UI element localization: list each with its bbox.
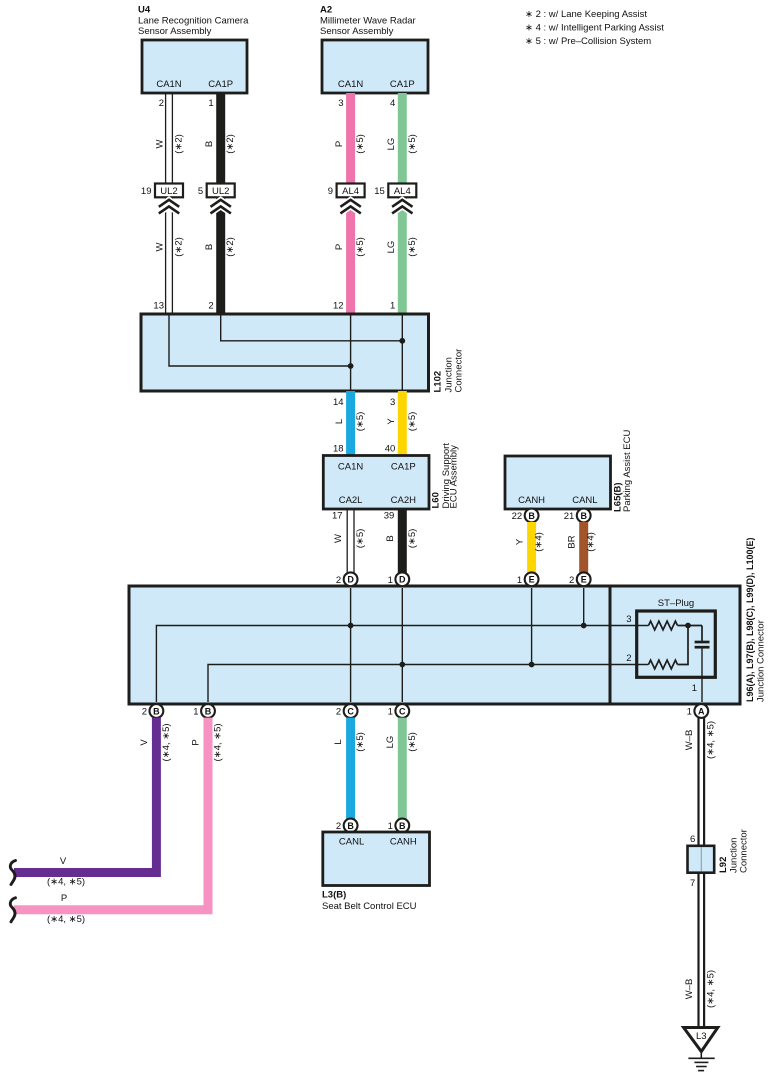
- wire P from A2 pin 3 to AL4: [338, 93, 350, 184]
- connector AL4 pin 9: [328, 184, 365, 198]
- label L96(A) L97(B) L98(C) L99(D) L100(E) Junction Connector: [745, 537, 767, 702]
- wire W from UL2 to L102 pin 13: [153, 197, 172, 314]
- svg-text:(∗5): (∗5): [355, 732, 366, 752]
- wire inside L102 pin 12 down to pin 14: [350, 315, 352, 390]
- component U4 Lane Recognition Camera Sensor Assembly box: [142, 40, 247, 93]
- wire V from 2B down and left: [14, 718, 156, 873]
- label pin 3: [626, 614, 631, 625]
- terminal 2 E: [569, 572, 591, 586]
- label BR (*4): [567, 532, 597, 552]
- svg-text:Connector: Connector: [454, 349, 465, 393]
- svg-text:4: 4: [390, 98, 395, 109]
- svg-text:1: 1: [692, 683, 697, 694]
- wire inside L102 pin 1 down to pin 3: [401, 315, 403, 390]
- wire L from L102 pin 14 to L60 pin 18: [333, 391, 351, 456]
- component L102 Junction Connector box: [141, 314, 429, 391]
- svg-text:Sensor Assembly: Sensor Assembly: [320, 26, 394, 37]
- svg-text:B: B: [385, 535, 396, 541]
- svg-text:L: L: [333, 739, 344, 744]
- svg-text:V: V: [139, 739, 150, 746]
- label W (*2) upper: [155, 134, 185, 154]
- label L60 Driving Support ECU Assembly: [431, 443, 460, 509]
- svg-text:39: 39: [384, 511, 395, 522]
- svg-text:(∗4, ∗5): (∗4, ∗5): [705, 970, 716, 1008]
- svg-text:L3(B): L3(B): [322, 890, 346, 901]
- wire capacitor to pin 1A: [701, 649, 703, 703]
- label L (*5) bottom: [333, 732, 366, 752]
- svg-text:L92: L92: [718, 857, 729, 873]
- junction node W-P: [348, 363, 354, 369]
- label B (*2) upper: [204, 134, 236, 154]
- svg-text:Connector: Connector: [739, 829, 750, 873]
- terminal 1 E: [517, 572, 539, 586]
- component L3(B) Seat Belt Control ECU box: [323, 832, 430, 886]
- svg-text:CANH: CANH: [390, 837, 417, 848]
- svg-text:1: 1: [208, 98, 213, 109]
- svg-text:CA1P: CA1P: [391, 462, 416, 473]
- wire B from UL2 to L102 pin 2: [208, 197, 220, 314]
- svg-text:P: P: [191, 739, 202, 745]
- wire to capacitor: [701, 626, 703, 641]
- svg-text:(∗4, ∗5): (∗4, ∗5): [705, 721, 716, 759]
- svg-text:2: 2: [208, 301, 213, 312]
- terminal 1 B of L3(B): [388, 819, 410, 833]
- svg-text:13: 13: [153, 301, 164, 312]
- junction node 2D-CANH: [348, 623, 354, 629]
- svg-text:B: B: [528, 511, 535, 521]
- resistor R-CANL in ST-Plug: [649, 626, 689, 669]
- svg-text:A: A: [698, 706, 705, 716]
- svg-text:B: B: [204, 141, 215, 147]
- label LG (*5) bottom: [385, 732, 418, 752]
- wire node 1D to 1C: [401, 588, 403, 702]
- svg-text:(∗4, ∗5): (∗4, ∗5): [47, 877, 85, 888]
- svg-text:2: 2: [336, 821, 341, 832]
- svg-text:Millimeter Wave Radar: Millimeter Wave Radar: [320, 16, 416, 27]
- svg-text:18: 18: [333, 444, 344, 455]
- label P (*4,*5) vertical: [191, 723, 224, 761]
- wire B from U4 pin 1 to UL2: [208, 93, 220, 184]
- junction node resistors: [685, 623, 691, 629]
- label P (*5) lower: [334, 237, 366, 257]
- connector UL2 pin 5: [198, 184, 235, 198]
- wire LG from 1C to L3(B): [398, 718, 407, 819]
- svg-text:7: 7: [690, 878, 695, 889]
- svg-text:12: 12: [333, 301, 344, 312]
- svg-text:L3: L3: [696, 1031, 707, 1042]
- junction node B-LG: [399, 338, 405, 344]
- wire Y from L65 CANH to node 1E: [527, 522, 536, 573]
- svg-text:17: 17: [332, 511, 343, 522]
- svg-text:(∗5): (∗5): [407, 237, 418, 257]
- svg-text:15: 15: [374, 186, 385, 197]
- svg-text:(∗5): (∗5): [355, 134, 366, 154]
- svg-text:1: 1: [388, 707, 393, 718]
- label L3(B) Seat Belt Control ECU: [322, 890, 417, 913]
- label A2 component name: [320, 5, 416, 38]
- wire LG from AL4 to L102 pin 1: [390, 197, 402, 314]
- svg-text:5: 5: [198, 186, 203, 197]
- wire W-B from L92 pin 7 to ground: [690, 873, 704, 1028]
- junction node 1E-CANL: [529, 662, 535, 668]
- svg-text:P: P: [334, 141, 345, 147]
- svg-text:1: 1: [687, 707, 692, 718]
- label L92 Junction Connector: [718, 829, 750, 873]
- svg-text:LG: LG: [386, 138, 397, 151]
- svg-text:(∗2): (∗2): [174, 237, 185, 257]
- wire LG from A2 pin 4 to AL4: [390, 93, 402, 184]
- svg-text:L96(A), L97(B), L98(C), L99(D): L96(A), L97(B), L98(C), L99(D), L100(E): [745, 537, 755, 702]
- svg-text:(∗5): (∗5): [407, 412, 418, 432]
- wire L from 2C to L3(B): [346, 718, 355, 819]
- break symbol P wire: [10, 898, 15, 922]
- svg-text:3: 3: [390, 397, 395, 408]
- svg-text:CA2H: CA2H: [391, 495, 416, 506]
- svg-text:1: 1: [388, 575, 393, 586]
- svg-text:(∗5): (∗5): [355, 412, 366, 432]
- svg-text:A2: A2: [320, 5, 332, 16]
- terminal 1 A: [687, 704, 709, 718]
- svg-text:AL4: AL4: [394, 186, 411, 197]
- svg-text:(∗4, ∗5): (∗4, ∗5): [47, 914, 85, 925]
- terminal 1 B: [193, 704, 215, 718]
- label P (*5) upper: [334, 134, 366, 154]
- svg-text:W–B: W–B: [684, 730, 695, 751]
- label L (*5): [334, 412, 366, 432]
- svg-text:AL4: AL4: [342, 186, 359, 197]
- svg-text:V: V: [60, 856, 67, 867]
- svg-text:CA2L: CA2L: [339, 495, 363, 506]
- svg-text:(∗4, ∗5): (∗4, ∗5): [161, 723, 172, 761]
- svg-text:B: B: [205, 706, 212, 716]
- component L96-L100 Junction Connector box: [129, 586, 740, 704]
- chevron on wire P: [340, 200, 360, 214]
- svg-text:P: P: [334, 244, 345, 250]
- svg-text:CA1N: CA1N: [338, 79, 363, 90]
- label W-B (*4,*5) upper: [684, 721, 717, 759]
- svg-text:(∗5): (∗5): [407, 134, 418, 154]
- svg-text:W: W: [155, 139, 166, 148]
- svg-text:W: W: [155, 242, 166, 251]
- svg-text:B: B: [399, 821, 406, 831]
- chevron on wire W: [159, 200, 179, 214]
- terminal 21 B of L65: [564, 509, 591, 523]
- wire Y from L102 pin 3 to L60 pin 40: [385, 391, 403, 456]
- label B (*2) lower: [204, 237, 236, 257]
- label pin 1: [692, 683, 697, 694]
- terminal 1 D: [388, 572, 410, 586]
- svg-text:CA1P: CA1P: [390, 79, 415, 90]
- svg-text:∗ 4 : w/ Intelligent Parking A: ∗ 4 : w/ Intelligent Parking Assist: [525, 23, 664, 34]
- connector UL2 pin 19: [141, 184, 183, 198]
- wire W-B from 1A to L92 pin 6: [690, 718, 704, 846]
- svg-text:2: 2: [626, 653, 631, 664]
- label L102 Junction Connector: [433, 349, 465, 393]
- svg-text:W–B: W–B: [684, 979, 695, 1000]
- label W (*5): [333, 529, 366, 549]
- svg-text:L102: L102: [433, 371, 444, 393]
- svg-text:UL2: UL2: [160, 186, 177, 197]
- svg-text:D: D: [347, 575, 354, 585]
- svg-text:(∗4): (∗4): [534, 532, 545, 552]
- terminal 1 C: [388, 704, 410, 718]
- svg-text:∗ 2 : w/ Lane Keeping Assist: ∗ 2 : w/ Lane Keeping Assist: [525, 9, 647, 20]
- svg-text:LG: LG: [385, 736, 396, 749]
- label ST-Plug: [658, 598, 694, 609]
- svg-text:3: 3: [626, 614, 631, 625]
- svg-text:1: 1: [388, 821, 393, 832]
- svg-text:(∗5): (∗5): [407, 529, 418, 549]
- svg-text:L60: L60: [431, 492, 442, 508]
- svg-text:14: 14: [333, 397, 344, 408]
- component A2 Millimeter Wave Radar Sensor Assembly box: [322, 40, 428, 93]
- label W (*2) lower: [155, 237, 185, 257]
- component L60 Driving Support ECU Assembly box: [323, 456, 429, 510]
- capacitor in ST-Plug: [695, 642, 710, 647]
- legend note *2 *4 *5: [525, 9, 664, 47]
- terminal 2 C: [336, 704, 358, 718]
- svg-text:CANH: CANH: [518, 495, 545, 506]
- svg-text:2: 2: [336, 707, 341, 718]
- svg-text:BR: BR: [567, 535, 578, 548]
- svg-text:C: C: [347, 706, 354, 716]
- wire W from U4 pin 2 to UL2: [159, 93, 173, 184]
- label W-B (*4,*5) lower: [684, 970, 717, 1008]
- svg-text:UL2: UL2: [212, 186, 229, 197]
- svg-text:Seat Belt Control ECU: Seat Belt Control ECU: [322, 901, 417, 912]
- component L65(B) Parking Assist ECU box: [505, 456, 611, 509]
- wire node 1E to CANL bus: [531, 588, 533, 665]
- label B (*5): [385, 529, 418, 549]
- chevron on wire LG: [392, 200, 412, 214]
- svg-text:P: P: [61, 893, 67, 904]
- svg-text:Y: Y: [386, 418, 397, 425]
- bus CANL inside junction connector: [208, 665, 649, 703]
- svg-text:CA1P: CA1P: [208, 79, 233, 90]
- svg-text:∗ 5 : w/ Pre–Collision System: ∗ 5 : w/ Pre–Collision System: [525, 36, 651, 47]
- wire node 2E to CANH bus: [583, 588, 585, 626]
- label LG (*5) lower: [386, 237, 418, 257]
- svg-text:(∗2): (∗2): [225, 237, 236, 257]
- ground symbol: [688, 1052, 714, 1071]
- label Y (*4): [515, 532, 545, 552]
- svg-text:2: 2: [336, 575, 341, 586]
- bus CANH inside junction connector: [156, 626, 648, 703]
- svg-text:B: B: [204, 244, 215, 250]
- label V (*4,*5) vertical: [139, 723, 172, 761]
- divider inside junction connector: [609, 586, 612, 704]
- connector AL4 pin 15: [374, 184, 416, 198]
- svg-text:Junction Connector: Junction Connector: [756, 620, 767, 702]
- wire B from L60 pin 39 to node 1D: [384, 509, 403, 573]
- terminal 2 D: [336, 572, 358, 586]
- terminal 2 B: [142, 704, 164, 718]
- svg-text:LG: LG: [386, 241, 397, 254]
- svg-text:B: B: [347, 821, 354, 831]
- svg-text:21: 21: [564, 511, 575, 522]
- wire BR from L65 CANL to node 2E: [579, 522, 588, 573]
- svg-text:(∗4): (∗4): [586, 532, 597, 552]
- label Y (*5): [386, 412, 418, 432]
- svg-text:CANL: CANL: [339, 837, 364, 848]
- svg-text:ST–Plug: ST–Plug: [658, 598, 694, 609]
- chevron on wire B: [211, 200, 231, 214]
- resistor R-CANH in ST-Plug: [649, 621, 703, 630]
- svg-text:(∗4, ∗5): (∗4, ∗5): [213, 723, 224, 761]
- svg-text:(∗2): (∗2): [174, 134, 185, 154]
- svg-text:3: 3: [338, 98, 343, 109]
- svg-text:22: 22: [512, 511, 523, 522]
- junction node 2E-CANH: [581, 623, 587, 629]
- label LG (*5) upper: [386, 134, 418, 154]
- svg-text:(∗2): (∗2): [225, 134, 236, 154]
- svg-text:(∗5): (∗5): [355, 529, 366, 549]
- svg-text:W: W: [333, 534, 344, 543]
- svg-text:C: C: [399, 706, 406, 716]
- terminal 2 B of L3(B): [336, 819, 358, 833]
- break symbol V wire: [10, 861, 15, 885]
- label L65(B) Parking Assist ECU: [613, 430, 634, 512]
- svg-text:Parking Assist ECU: Parking Assist ECU: [622, 430, 633, 512]
- svg-text:Lane Recognition Camera: Lane Recognition Camera: [138, 16, 249, 27]
- svg-text:9: 9: [328, 186, 333, 197]
- svg-text:(∗5): (∗5): [355, 237, 366, 257]
- terminal 22 B of L65: [512, 509, 539, 523]
- svg-text:ECU Assembly: ECU Assembly: [449, 445, 460, 509]
- svg-text:Sensor Assembly: Sensor Assembly: [138, 26, 212, 37]
- junction node 1D-CANL: [399, 662, 405, 668]
- component ST-Plug box: [637, 611, 716, 677]
- svg-text:2: 2: [569, 575, 574, 586]
- svg-text:B: B: [580, 511, 587, 521]
- svg-text:(∗5): (∗5): [407, 732, 418, 752]
- wire inside L102 from pin 13 to pin 12 column: [169, 315, 351, 366]
- label pin 2: [626, 653, 631, 664]
- label V horizontal: [47, 856, 85, 888]
- label U4 component name: [138, 5, 249, 38]
- svg-text:6: 6: [690, 834, 695, 845]
- component L92 Junction Connector box: [688, 846, 715, 873]
- svg-text:B: B: [153, 706, 160, 716]
- svg-text:1: 1: [517, 575, 522, 586]
- svg-text:CANL: CANL: [572, 495, 597, 506]
- svg-text:CA1N: CA1N: [156, 79, 181, 90]
- wire W from L60 pin 17 to node 2D: [332, 509, 354, 573]
- svg-text:E: E: [529, 575, 535, 585]
- svg-text:CA1N: CA1N: [338, 462, 363, 473]
- svg-text:40: 40: [385, 444, 396, 455]
- svg-text:D: D: [399, 575, 406, 585]
- svg-text:E: E: [581, 575, 587, 585]
- ground point L3 triangle: [684, 1028, 718, 1052]
- svg-text:1: 1: [390, 301, 395, 312]
- svg-text:19: 19: [141, 186, 152, 197]
- svg-text:U4: U4: [138, 5, 151, 16]
- wire node 2D to 2C: [350, 588, 352, 702]
- svg-text:2: 2: [159, 98, 164, 109]
- wire P from 1B down and left: [14, 718, 208, 910]
- svg-text:Y: Y: [515, 538, 526, 545]
- svg-text:1: 1: [193, 707, 198, 718]
- wire inside L102 from pin 2 to pin 1 column: [221, 315, 403, 341]
- wire P from AL4 to L102 pin 12: [333, 197, 351, 314]
- label P horizontal: [47, 893, 85, 925]
- svg-text:2: 2: [142, 707, 147, 718]
- svg-text:L: L: [334, 419, 345, 424]
